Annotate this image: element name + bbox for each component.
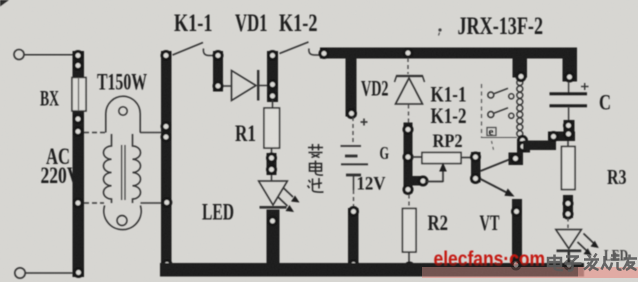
wire dashed to LED2	[567, 218, 569, 229]
svg-text:LED: LED	[202, 200, 234, 225]
label 电 (battery)	[310, 161, 324, 176]
wire (left bus vertical)	[73, 51, 85, 277]
transformer bottom flange	[104, 206, 141, 230]
node LED2 bus junction	[565, 261, 573, 269]
svg-text:R1: R1	[235, 121, 256, 146]
node VD2 bar mid	[404, 153, 412, 161]
node VD2 bar bottom	[404, 186, 412, 194]
node R3 stub top	[564, 200, 572, 208]
diode VD2	[395, 58, 425, 123]
watermark bar pink	[422, 267, 638, 278]
transformer secondary winding	[133, 134, 141, 203]
node bar1 top	[214, 52, 222, 60]
wire R3 to LED stub	[563, 195, 573, 218]
wire battery drop	[346, 59, 357, 117]
resistor R3	[562, 141, 576, 190]
node battery drop bottom	[348, 110, 356, 118]
node base bottom	[472, 175, 480, 183]
wire top bus end drop	[563, 48, 578, 82]
node collector	[512, 155, 520, 163]
svg-text:G: G	[380, 143, 390, 163]
svg-text:K1-2: K1-2	[279, 10, 318, 37]
node emitter stem bottom	[512, 260, 520, 268]
node mid bus transformer bottom	[163, 199, 171, 207]
speck	[438, 28, 441, 35]
wire dashed to battery	[352, 117, 354, 145]
svg-text:VD2: VD2	[361, 76, 389, 101]
node top bus at VD2	[404, 49, 412, 57]
node R1 stub bottom	[268, 166, 276, 174]
LED1 arrows	[278, 188, 300, 213]
wire bar after VD1	[267, 51, 278, 102]
wire VD2 bar	[404, 123, 413, 194]
svg-text:220V: 220V	[41, 163, 80, 188]
node coil top	[517, 73, 525, 81]
switch K1-1 blade	[173, 43, 214, 56]
transistor VT emitter	[481, 179, 515, 197]
wire dashed battery to bus	[353, 190, 355, 208]
node base top	[472, 153, 480, 161]
wire battery lower bus	[348, 208, 359, 265]
node bar2 bottom	[269, 92, 277, 100]
svg-text:K1-2: K1-2	[431, 103, 467, 128]
node mid bus transformer top	[162, 123, 170, 131]
wire emitter stem	[512, 199, 522, 265]
node on left bus (top pair)	[74, 52, 82, 60]
fuse BX	[72, 78, 86, 112]
node bar2 diode	[269, 81, 277, 89]
wire bottom terminal to left bus	[26, 272, 74, 274]
node LED1 stub	[269, 217, 277, 225]
plus polarity C	[581, 83, 589, 90]
plus polarity battery	[361, 119, 368, 126]
node collector upper	[519, 143, 527, 151]
wire thick horizontal 1	[523, 141, 556, 151]
transformer bottom rail	[84, 202, 161, 204]
node coil bottom	[519, 137, 527, 145]
transformer bottom hole	[117, 216, 127, 226]
svg-text:K1-1: K1-1	[174, 10, 213, 37]
wire collector block lower	[509, 153, 524, 166]
relay contact K1-1	[488, 88, 514, 99]
node R3 stub bottom	[564, 210, 572, 218]
node on horizontal 2	[550, 133, 558, 141]
node bar1 bottom	[214, 82, 222, 90]
node below fuse	[74, 115, 82, 123]
transformer primary winding	[103, 134, 111, 203]
node R1 stub top	[268, 154, 276, 162]
LED2 arrows	[578, 234, 599, 256]
wire R1 to LED stub	[267, 148, 277, 175]
node VD2 bar top	[404, 126, 412, 134]
terminal top-left	[14, 50, 24, 60]
battery G	[341, 146, 369, 190]
wire top terminal to left bus	[25, 54, 74, 56]
node emitter stem top	[513, 208, 521, 216]
corner mark	[0, 0, 9, 7]
relay coil	[517, 80, 523, 137]
node emitter bus junction	[512, 261, 520, 269]
relay dashed box	[482, 84, 518, 152]
transformer top hole	[119, 107, 127, 115]
node cap vertical upper	[565, 122, 573, 130]
transistor VT collector	[481, 158, 514, 171]
transformer core	[122, 145, 125, 200]
diode VD1	[223, 70, 267, 101]
svg-text:C: C	[599, 90, 611, 115]
wire R2 to bottom bus	[408, 252, 410, 264]
node cap vertical lower	[565, 130, 573, 138]
switch K1-2 blade	[280, 42, 322, 55]
relay contact K1-2	[488, 108, 514, 119]
node top bus left	[320, 50, 328, 58]
wire bar2 to R1	[272, 100, 274, 109]
label 蓄	[308, 144, 323, 158]
node left bus at transformer bottom	[74, 199, 82, 207]
label e pin	[487, 126, 496, 138]
node R2 bottom	[406, 263, 414, 271]
node mid bus bottom	[163, 261, 171, 269]
label 池	[308, 178, 324, 192]
terminal bottom-left	[15, 268, 25, 278]
svg-text:BX: BX	[40, 86, 59, 111]
svg-text:R2: R2	[428, 210, 449, 235]
watermark 电子发烧友	[548, 253, 637, 271]
capacitor C	[550, 82, 588, 121]
wiper RP2 arrow	[425, 163, 447, 183]
wire transistor base bar	[471, 152, 481, 183]
transformer top flange	[106, 96, 140, 132]
node battery lower top	[350, 208, 358, 216]
svg-text:VT: VT	[480, 210, 500, 235]
potentiometer RP2	[413, 153, 472, 164]
wire (mid bus vertical)	[161, 51, 172, 270]
LED2 diode	[556, 230, 582, 265]
wire wiper blob	[406, 176, 425, 186]
svg-text:RP2: RP2	[433, 131, 463, 152]
wire (bottom bus horizontal)	[160, 263, 584, 277]
node end drop	[566, 73, 574, 81]
node battery lower bottom	[350, 261, 358, 269]
node mid bus top	[162, 52, 170, 60]
wire bar after K1-1	[213, 51, 223, 92]
svg-text:JRX-13F-2: JRX-13F-2	[458, 13, 544, 40]
transformer T1 top rail	[84, 132, 161, 134]
wire (top bus horizontal)	[320, 48, 577, 59]
node wiper junction	[419, 177, 427, 185]
LED1 diode	[259, 175, 288, 207]
resistor R1	[264, 108, 280, 148]
svg-text:VD1: VD1	[235, 10, 268, 37]
wire thick horizontal 2	[548, 132, 575, 142]
svg-text:R3: R3	[607, 165, 627, 189]
svg-text:e: e	[489, 126, 494, 138]
resistor R2	[403, 209, 417, 253]
wire cap bottom vertical	[564, 120, 575, 141]
wire bus under watermark	[422, 264, 578, 277]
svg-text:12V: 12V	[357, 174, 386, 195]
wire collector block upper	[517, 141, 530, 153]
wire coil drop	[513, 59, 528, 78]
wire dashed VD2 bar to R2	[408, 195, 410, 209]
node bar2 top	[269, 52, 277, 60]
wire LED1 stub to bus	[267, 210, 280, 264]
svg-text:T150W: T150W	[97, 70, 147, 95]
node left bus bottom	[75, 269, 83, 277]
